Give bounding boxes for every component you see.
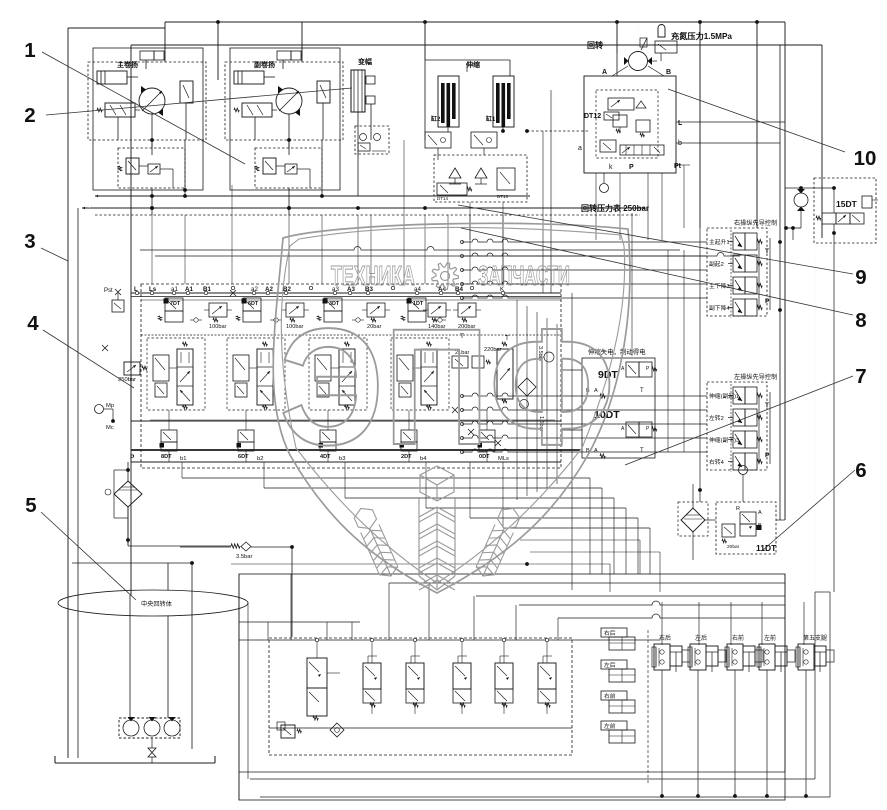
bottom valve v1 actuator <box>367 656 369 663</box>
svg-text:P: P <box>765 452 770 459</box>
svg-text:缸1: 缸1 <box>486 115 496 123</box>
wire right x700 down <box>699 228 701 502</box>
swing solenoid DT12 symbol <box>604 112 619 120</box>
svg-text:DT14: DT14 <box>437 196 449 201</box>
bank internal circles row <box>231 286 234 289</box>
swing accumulator <box>658 25 665 38</box>
telescopic check valve right <box>497 168 515 190</box>
wire swing L/b to right <box>690 121 785 123</box>
left 250bar relief valve <box>124 362 140 375</box>
bottom valve v3 actuator <box>457 656 459 663</box>
svg-text:主卷扬: 主卷扬 <box>117 60 138 69</box>
wire K riser <box>502 240 504 284</box>
svg-text:主起升1: 主起升1 <box>709 238 730 246</box>
bottom nested lines right <box>389 582 785 584</box>
leg-RR lock valve <box>654 644 670 670</box>
wire left vertical x68 <box>67 28 69 758</box>
bank reducing valve 200bar <box>458 303 476 317</box>
pilot-R internal wires <box>758 241 760 308</box>
svg-text:右后: 右后 <box>659 634 671 642</box>
callout 9 leader <box>458 205 853 274</box>
mid filter diamond <box>518 378 536 396</box>
section2 section frame <box>227 338 285 410</box>
bottom valve v2 spring <box>413 703 418 707</box>
svg-text:L: L <box>678 120 683 127</box>
bottom valve v3 body <box>453 663 471 689</box>
pilot-R v4 pilot valve <box>733 299 745 316</box>
svg-text:T: T <box>765 402 769 409</box>
Mp gauge <box>95 405 104 414</box>
svg-text:T: T <box>765 248 769 255</box>
leg-RR cylinder <box>670 646 682 666</box>
aux-winch side valve <box>317 81 330 103</box>
bottom valve v4 body <box>495 663 513 689</box>
section1 main spool <box>177 349 193 405</box>
leg-5 drop wire <box>805 670 807 796</box>
leg-RF lock valve <box>727 644 743 670</box>
bottom valve v5 spring <box>545 703 550 707</box>
section2 pilot cap <box>233 355 249 381</box>
svg-text:变幅: 变幅 <box>358 57 372 66</box>
svg-text:8: 8 <box>855 309 866 332</box>
swing block outer rect <box>584 76 676 173</box>
bank bottom solenoid 6DT <box>238 430 254 442</box>
watermark wheat right <box>474 504 522 580</box>
dir-LR label box <box>601 660 627 669</box>
svg-text:Pt: Pt <box>674 163 682 170</box>
wire horizontals under bank staircase <box>182 477 590 479</box>
svg-text:DT13: DT13 <box>497 194 509 199</box>
svg-text:P: P <box>765 298 770 305</box>
bank internal h-lines <box>141 334 561 336</box>
bank reducing valve 140bar <box>428 303 446 317</box>
leg-5 lock valve <box>798 644 814 670</box>
watermark wheat center <box>419 466 455 590</box>
3.5bar bypass valve <box>231 544 240 548</box>
svg-text:6DT: 6DT <box>248 301 259 307</box>
section2 main spool <box>257 349 273 405</box>
9DT-10DT enclosure <box>582 358 655 458</box>
right vertical x815 <box>814 250 816 592</box>
filter bypass <box>113 470 115 518</box>
svg-text:R: R <box>736 506 740 512</box>
svg-text:回转: 回转 <box>587 40 603 50</box>
aux-winch charge cylinder <box>234 71 264 84</box>
section1 section frame <box>147 338 205 410</box>
svg-text:4: 4 <box>27 312 39 335</box>
luffing pump vertical block <box>351 70 365 112</box>
wire right x757 down <box>756 228 758 240</box>
svg-text:6: 6 <box>855 459 866 482</box>
bank pilot label 1DT <box>407 299 412 304</box>
section3 section frame <box>309 338 367 410</box>
svg-text:右后: 右后 <box>604 629 616 637</box>
leg-RF drop wire <box>734 670 736 796</box>
wire dashed pilot bus y215 <box>95 214 640 216</box>
11DT filter diamond <box>681 508 705 532</box>
Pst valve symbol <box>112 300 124 312</box>
pilot block right verticals <box>769 238 771 310</box>
bank reducing valve 100bar <box>209 303 227 317</box>
section4 main spool <box>421 349 437 405</box>
bank bottom solenoid 2DT <box>401 430 417 442</box>
svg-text:7: 7 <box>855 365 866 388</box>
watermark shield outer <box>273 223 630 593</box>
svg-text:a: a <box>578 145 582 152</box>
svg-text:2: 2 <box>24 104 35 127</box>
bottom valve block enclosure <box>269 638 572 755</box>
main-winch wires <box>151 114 153 155</box>
x marks <box>115 289 121 295</box>
section4 section frame <box>391 338 449 410</box>
bank pilot valve 3DT <box>324 298 342 311</box>
bottom verticals from top lines <box>267 622 269 640</box>
svg-text:ЭПФ: ЭПФ <box>280 295 615 480</box>
swing brake valve <box>600 140 616 152</box>
10DT valve <box>626 422 639 437</box>
svg-text:左后: 左后 <box>695 634 707 642</box>
bottom check diamond <box>330 723 344 737</box>
mid gauge circle <box>520 400 529 409</box>
callout 7 leader <box>625 376 853 465</box>
main-winch charge cylinder <box>97 71 127 84</box>
watermark wheat left <box>352 504 400 580</box>
section1 pilot cap <box>153 355 169 381</box>
bank bottom solenoid 0DT <box>479 430 495 442</box>
svg-text:副起2: 副起2 <box>709 260 724 268</box>
watermark gear <box>432 263 459 290</box>
callout 2 leader <box>46 88 352 115</box>
svg-text:P: P <box>629 164 634 171</box>
wire left vertical x131 <box>130 45 132 595</box>
luffing wires <box>357 112 359 196</box>
main winch outer box <box>93 48 203 190</box>
cyl1 telescopic cylinder <box>493 76 514 127</box>
bank pilot label 7DT <box>164 299 169 304</box>
leg-LF lock valve <box>759 644 775 670</box>
wire right vertical x785 <box>784 22 786 520</box>
dir-LR body box <box>609 669 635 682</box>
swing pressure gauge <box>600 184 609 193</box>
svg-text:10: 10 <box>854 147 877 170</box>
bank pilot label 3DT <box>323 299 328 304</box>
11DT relief valve <box>722 524 735 537</box>
wire swing P port riser <box>631 213 633 356</box>
aux-winch servo valve <box>242 103 272 117</box>
swing inner valve circuit <box>596 90 658 158</box>
pilot-R v3 pilot valve <box>733 277 745 294</box>
svg-text:T: T <box>640 448 644 454</box>
svg-text:A: A <box>758 510 762 516</box>
swing bottom solenoid valve row <box>620 145 664 155</box>
bottom valve v5 actuator <box>542 656 544 663</box>
leg-RR drop wire <box>661 670 663 796</box>
svg-text:ЗАПЧАСТИ: ЗАПЧАСТИ <box>478 260 570 291</box>
leg-LR cylinder <box>706 646 718 666</box>
cyl2 telescopic cylinder <box>438 76 459 127</box>
callout 10 leader <box>668 89 845 152</box>
bank reducing valve 100bar <box>286 303 304 317</box>
dir-LF label box <box>601 721 627 730</box>
valve bank top bus <box>131 292 561 294</box>
bottom outer rect 1 <box>239 574 785 800</box>
wires from swing block down <box>595 173 597 240</box>
watermark shield inner <box>281 227 624 583</box>
svg-text:Pst: Pst <box>104 288 113 294</box>
svg-text:B: B <box>666 69 671 76</box>
triple gear pump block <box>119 718 180 738</box>
svg-text:回转压力表 250bar: 回转压力表 250bar <box>581 203 649 213</box>
main-winch small top valve <box>140 51 154 60</box>
telescopic shuttle valve 1 <box>449 168 461 178</box>
15DT pilot box <box>862 196 872 208</box>
main winch drop wires <box>151 140 153 148</box>
leg-LF drop wire <box>766 670 768 796</box>
section3 pilot cap <box>315 355 331 381</box>
pilot-L enclosure <box>707 382 767 470</box>
svg-text:左转2: 左转2 <box>709 414 724 422</box>
telescopic shuttle valve 2 <box>475 168 487 178</box>
bank pilot valve 1DT <box>408 298 426 311</box>
telescopic balance valve left <box>425 132 451 148</box>
svg-text:8DT: 8DT <box>161 454 172 460</box>
pilot-R enclosure <box>707 228 767 316</box>
leg-LR drop wire <box>697 670 699 796</box>
svg-text:7DT: 7DT <box>170 301 181 307</box>
pump drain needle valve <box>151 738 153 748</box>
svg-text:左后: 左后 <box>604 661 616 669</box>
central swivel joint ellipse <box>58 590 248 616</box>
svg-text:右转4: 右转4 <box>709 458 725 466</box>
telescopic solenoid valve DT14 <box>437 183 467 195</box>
svg-text:A: A <box>602 69 607 76</box>
telescopic wires <box>447 127 449 132</box>
pilot hose lines lower <box>461 395 464 398</box>
pilot-L v2 pilot valve <box>733 409 745 426</box>
left filter <box>114 481 142 507</box>
wire top bus <box>165 21 785 23</box>
pilot-L v1 pilot valve <box>733 387 745 404</box>
valve bank outer dashed enclosure <box>141 284 561 468</box>
bottom valve v1 spring <box>370 703 375 707</box>
svg-text:左操纵先导控制: 左操纵先导控制 <box>734 373 777 381</box>
svg-text:伸缩(副下)3: 伸缩(副下)3 <box>709 436 739 444</box>
mid check circle <box>544 352 554 362</box>
bank bottom solenoid 4DT <box>320 430 336 442</box>
under-bank short lines right <box>520 539 640 541</box>
wire right vertical x822 <box>821 45 823 238</box>
15DT motor circle <box>794 193 808 207</box>
leg-RF cylinder <box>743 646 755 666</box>
main-winch side valve <box>180 81 193 103</box>
leg-LR lock valve <box>690 644 706 670</box>
callout 1 leader <box>42 52 245 164</box>
bottom bus top <box>239 639 660 641</box>
section5 21bar valve <box>452 356 468 368</box>
aux winch drop wires <box>288 140 290 148</box>
leg-LF cylinder <box>775 646 787 666</box>
dir-RF body box <box>609 700 635 713</box>
11DT valve <box>740 512 756 524</box>
main-winch relief sub-block <box>118 148 185 188</box>
15DT enclosure <box>814 178 876 243</box>
bank reducing valve 20bar <box>367 303 385 317</box>
section3 main spool <box>339 349 355 405</box>
dir-RF label box <box>601 691 627 700</box>
svg-text:ТЕХНИКА: ТЕХНИКА <box>331 260 415 291</box>
bank pilot label 6DT <box>242 299 247 304</box>
mid vertical wires right of bank <box>516 300 518 500</box>
wire dashed boundary x648 <box>647 630 649 784</box>
pilot hose lines upper <box>461 241 464 244</box>
svg-text:主下降3: 主下降3 <box>709 282 730 290</box>
swing wires <box>616 53 618 76</box>
svg-text:Mc: Mc <box>106 425 114 431</box>
bank pilot valve 7DT <box>165 298 183 311</box>
svg-text:右前: 右前 <box>604 692 616 700</box>
wire return bus y196 with arrow <box>95 195 530 197</box>
bank bottom bus <box>131 420 561 422</box>
svg-text:11DT: 11DT <box>756 543 777 553</box>
bottom valve v3 spring <box>460 703 465 707</box>
svg-text:b1: b1 <box>180 456 186 462</box>
main-winch main pump circle <box>139 88 165 114</box>
svg-text:1: 1 <box>24 39 35 62</box>
luffing valve pair block <box>355 126 389 154</box>
svg-text:左前: 左前 <box>604 722 616 730</box>
aux-winch main pump circle <box>276 88 302 114</box>
svg-text:Mp: Mp <box>106 403 114 409</box>
wire left return vertical x78 <box>77 208 79 758</box>
leg-5 cylinder <box>814 646 826 666</box>
swing charge valve <box>655 41 677 53</box>
pilot-L v3 pilot valve <box>733 431 745 448</box>
svg-text:右前: 右前 <box>732 634 744 642</box>
svg-text:k: k <box>609 164 613 171</box>
svg-text:缸2: 缸2 <box>431 115 441 123</box>
callout 4 leader <box>43 330 134 388</box>
bottom left verticals <box>238 574 240 800</box>
tank bracket bottom left <box>55 762 215 764</box>
swing motor circle <box>629 52 648 71</box>
main-winch module dashed enclosure <box>88 62 206 140</box>
telescopic pilot enclosure <box>434 155 527 202</box>
callout 6 leader <box>763 470 855 550</box>
aux-winch module dashed enclosure <box>225 62 343 140</box>
aux-winch wires <box>288 114 290 155</box>
bank pilot valve 6DT <box>243 298 261 311</box>
wire mid-right connectors <box>667 250 669 452</box>
section5 spool <box>497 349 513 399</box>
dir-RR label box <box>601 628 627 637</box>
wire second bus y45 <box>131 44 822 46</box>
svg-text:15DT: 15DT <box>836 199 858 209</box>
wire drops to bank <box>151 215 153 284</box>
bottom valve v5 body <box>538 663 556 689</box>
11DT gauge <box>739 466 748 475</box>
bank bottom solenoid 8DT <box>161 430 177 442</box>
wire long return line y256 <box>155 253 740 256</box>
callout 5 leader <box>41 512 136 600</box>
svg-text:充氮压力1.5MPa: 充氮压力1.5MPa <box>671 31 732 41</box>
15DT wires <box>785 187 834 189</box>
svg-text:P: P <box>130 454 135 461</box>
telescopic balance valve right <box>471 132 497 148</box>
bottom valve v4 actuator <box>499 656 501 663</box>
bottom valve v2 actuator <box>410 656 412 663</box>
svg-text:20bar: 20bar <box>727 544 740 550</box>
svg-text:100bar: 100bar <box>209 324 227 330</box>
wire verticals from top bus <box>164 22 166 62</box>
section5 small relief <box>472 356 484 368</box>
wire outrigger riser stubs <box>661 602 663 645</box>
bottom long bus lines <box>239 771 785 773</box>
svg-text:6DT: 6DT <box>238 454 249 460</box>
wires right of bank verticals <box>589 478 591 574</box>
swivel pass-through wires <box>129 595 131 718</box>
pilot-R v1 pilot valve <box>733 233 745 250</box>
svg-text:3: 3 <box>24 230 35 253</box>
pilot-R v2 pilot valve <box>733 255 745 272</box>
aux-winch relief sub-block <box>255 148 322 188</box>
11DT enclosure <box>716 502 776 554</box>
aux-winch small top valve <box>277 51 291 60</box>
bottom valve v1 body <box>363 663 381 689</box>
arrowheads left bus ends <box>82 202 90 208</box>
swing inclined gauge <box>641 38 647 50</box>
bottom valve v4 spring <box>502 703 507 707</box>
15DT solenoid valve <box>822 213 836 224</box>
bottom valve v2 body <box>406 663 424 689</box>
svg-text:左前: 左前 <box>764 634 776 642</box>
callout 8 leader <box>461 228 853 315</box>
main-winch servo valve <box>105 103 135 117</box>
pilot-L v4 pilot valve <box>733 453 745 470</box>
pilot-L internal wires <box>758 395 760 462</box>
svg-text:副卷扬: 副卷扬 <box>254 60 275 69</box>
svg-text:副下降4: 副下降4 <box>709 304 730 312</box>
wire long return line y250 <box>140 247 680 251</box>
bottom relief valve <box>281 725 295 738</box>
wire mid-left h563 <box>72 562 192 564</box>
svg-text:伸缩(副起)1: 伸缩(副起)1 <box>709 392 739 400</box>
section4 pilot cap <box>397 355 413 381</box>
bottom pilot valve double <box>307 658 327 688</box>
bottom bus lower <box>269 727 572 729</box>
svg-text:b2: b2 <box>257 456 263 462</box>
9DT valve <box>626 362 639 377</box>
right vertical x834 from 15DT <box>833 250 835 592</box>
bank port circles <box>135 291 138 294</box>
11DT wires <box>742 484 744 502</box>
bottom outer rect 2 <box>239 621 360 623</box>
wire return bus y208 with arrow <box>82 207 645 209</box>
svg-text:T: T <box>640 388 644 394</box>
svg-text:b: b <box>678 140 682 147</box>
callout 3 leader <box>41 248 68 261</box>
dir-LF body box <box>609 730 635 743</box>
svg-text:中央回转体: 中央回转体 <box>141 600 173 608</box>
svg-text:3.5bar: 3.5bar <box>236 554 253 560</box>
wire bank to 9DT <box>561 369 582 371</box>
dir-RR body box <box>609 637 635 650</box>
aux winch outer box <box>230 48 340 190</box>
svg-text:5: 5 <box>25 494 36 517</box>
svg-text:DT12: DT12 <box>584 113 601 120</box>
svg-text:右操纵先导控制: 右操纵先导控制 <box>734 219 777 227</box>
svg-text:9: 9 <box>855 266 866 289</box>
